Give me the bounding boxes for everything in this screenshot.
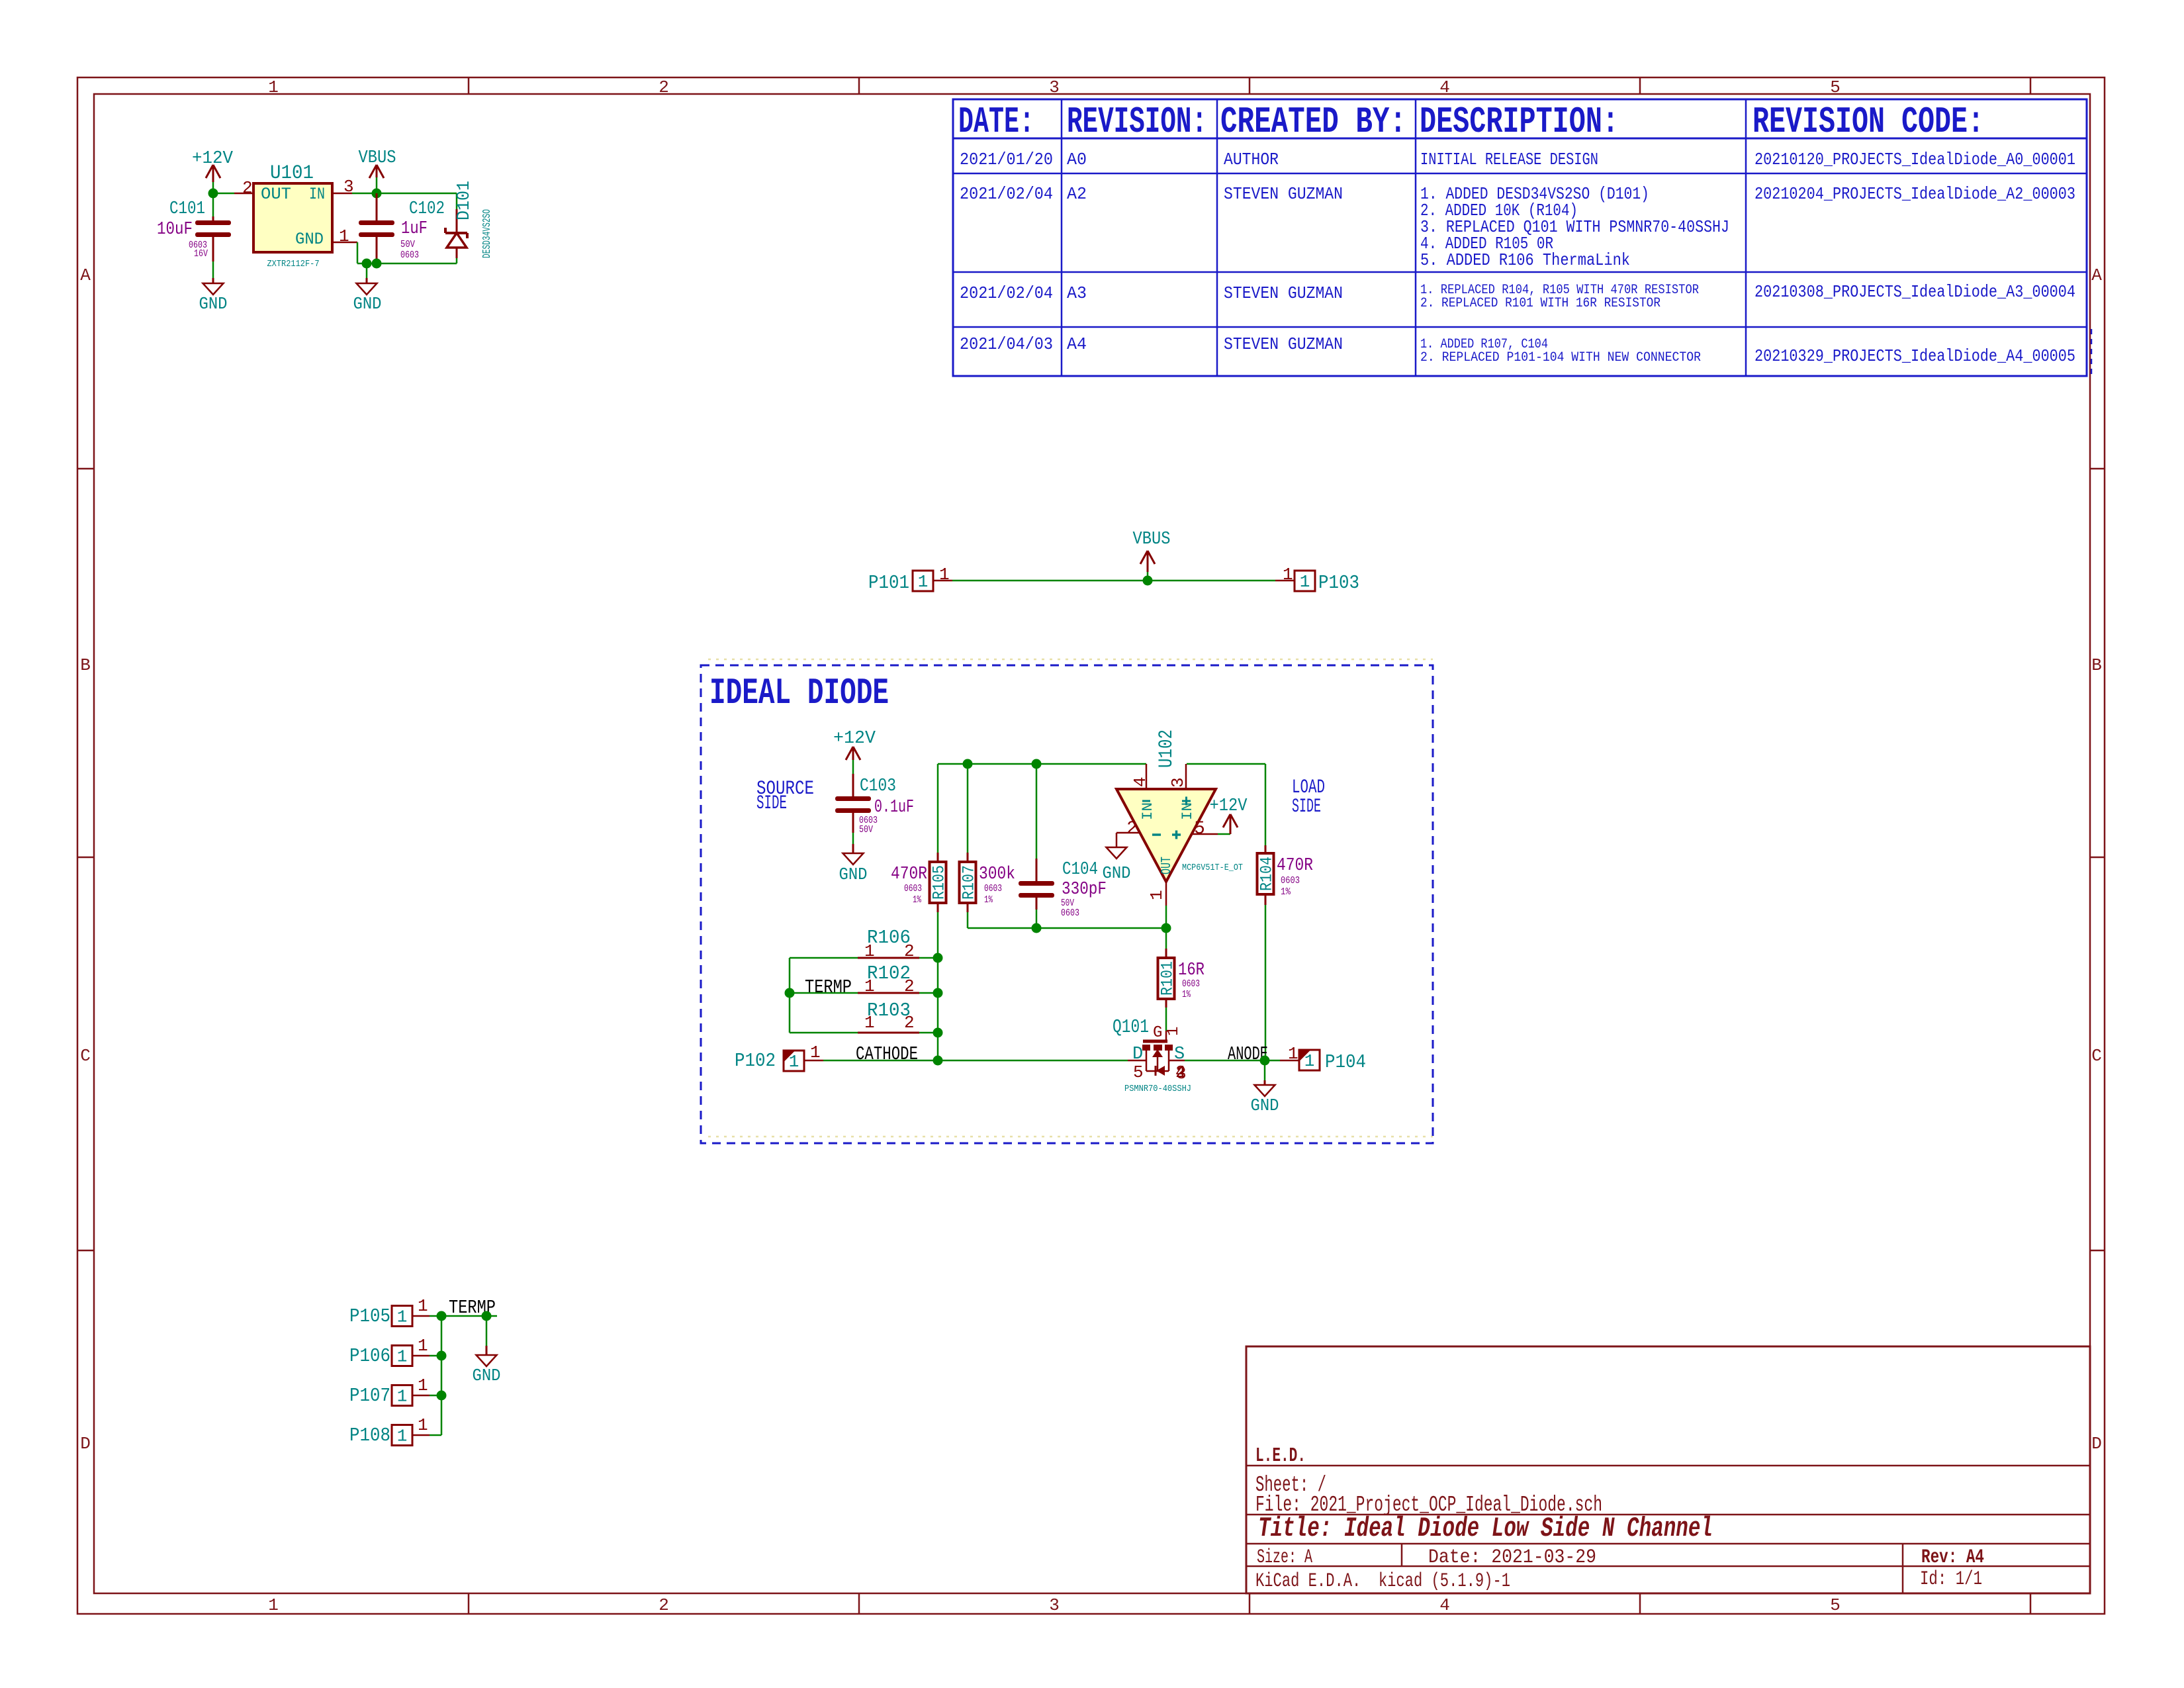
capacitor C102 [376, 193, 378, 220]
svg-text:1: 1 [789, 1052, 799, 1072]
svg-text:3: 3 [1176, 1064, 1187, 1084]
wire C101 to GND [212, 261, 214, 278]
wire anode to GND [1264, 1060, 1266, 1080]
svg-text:P106: P106 [349, 1345, 390, 1367]
svg-text:470R: 470R [891, 865, 927, 884]
svg-text:Date: 2021-03-29: Date: 2021-03-29 [1428, 1546, 1596, 1569]
junction R106 pin2 [933, 953, 943, 963]
svg-text:SIDE: SIDE [1292, 796, 1321, 818]
power symbol VBUS top-left [376, 165, 378, 177]
svg-text:3: 3 [1049, 77, 1060, 97]
wire ANODE [1185, 1060, 1280, 1062]
svg-text:C: C [2091, 1046, 2102, 1066]
ground symbol bottom-left [477, 1355, 497, 1366]
svg-text:1: 1 [418, 1376, 428, 1395]
junction R103 pin2 [933, 1028, 943, 1038]
capacitor C104 [1036, 764, 1038, 859]
wire R101 to Q101 gate [1165, 1008, 1167, 1031]
svg-text:A: A [80, 265, 91, 285]
junction at C102 bottom [372, 259, 382, 269]
wire top bus +12V [938, 763, 1146, 765]
svg-text:+12V: +12V [833, 729, 876, 749]
svg-text:470R: 470R [1277, 856, 1313, 876]
pin 1 OUT of U102 [1165, 882, 1167, 906]
svg-text:ZXTR2112F-7: ZXTR2112F-7 [267, 259, 320, 269]
svg-text:5: 5 [1133, 1062, 1144, 1082]
power symbol +12V at U102 pin5 [1230, 814, 1232, 834]
pale dashed accent lines [708, 659, 1433, 661]
power symbol +12V at C103 [852, 747, 854, 760]
svg-text:1: 1 [268, 77, 279, 97]
wire VBUS rail [952, 580, 1275, 582]
pin wire P104 [1280, 1060, 1299, 1062]
svg-text:C101: C101 [169, 199, 205, 219]
junction TERMP-GND [482, 1311, 492, 1321]
svg-text:2: 2 [659, 77, 669, 97]
pin wire P101 [933, 580, 952, 582]
svg-text:50V: 50V [400, 239, 415, 250]
svg-text:1: 1 [1300, 572, 1310, 592]
svg-text:A: A [2091, 265, 2102, 285]
zener diode D101 [456, 193, 458, 209]
svg-text:20210308_PROJECTS_IdealDiode_A: 20210308_PROJECTS_IdealDiode_A3_00004 [1754, 282, 2075, 302]
svg-text:P104: P104 [1325, 1051, 1366, 1073]
pin 5 of U102 [1191, 833, 1218, 835]
svg-text:2021/01/20: 2021/01/20 [960, 150, 1053, 169]
svg-text:DESD34VS2SO: DESD34VS2SO [481, 209, 494, 258]
svg-text:+12V: +12V [192, 149, 234, 169]
svg-text:Size: A: Size: A [1257, 1546, 1312, 1569]
title block outline [1246, 1346, 2090, 1593]
svg-text:U101: U101 [270, 162, 314, 185]
svg-text:L.E.D.: L.E.D. [1255, 1444, 1306, 1468]
junction C104 bottom [1032, 923, 1042, 933]
revision table dashed edge [2091, 329, 2093, 376]
svg-text:0603: 0603 [1281, 875, 1300, 886]
junction TERMP rail [785, 988, 795, 998]
power symbol VBUS mid [1147, 551, 1149, 572]
wire R104 to anode [1265, 905, 1267, 1060]
svg-text:2: 2 [904, 976, 915, 996]
svg-text:A4: A4 [1067, 334, 1087, 354]
ground symbol below C101 [203, 283, 224, 295]
wire R107 to bottom bus [967, 912, 969, 928]
pin 3 of U102 [1185, 764, 1187, 789]
svg-text:10uF: 10uF [157, 220, 193, 240]
wire U101 IN to VBUS node [352, 193, 377, 195]
power symbol +12V at C101 [212, 165, 214, 182]
svg-text:Q101: Q101 [1113, 1016, 1149, 1038]
pin 1 GND of U101 [332, 242, 357, 244]
capacitor C103 [835, 796, 871, 801]
wire U101 GND to ground net [357, 242, 359, 263]
svg-text:5: 5 [1830, 77, 1841, 97]
svg-text:GND: GND [1103, 863, 1131, 883]
svg-text:STEVEN GUZMAN: STEVEN GUZMAN [1224, 283, 1343, 303]
svg-text:Title: Ideal Diode Low Side N: Title: Ideal Diode Low Side N Channel [1258, 1513, 1713, 1544]
connector P104 [1299, 1050, 1320, 1070]
ground symbol below C102 [357, 283, 377, 295]
svg-text:1%: 1% [1281, 886, 1291, 898]
svg-text:1: 1 [397, 1347, 408, 1367]
svg-text:1uF: 1uF [401, 219, 428, 239]
wire pin2 to ground [1116, 833, 1118, 847]
wire to GND bottom [486, 1316, 488, 1346]
svg-text:2021/04/03: 2021/04/03 [960, 334, 1053, 354]
svg-text:C: C [80, 1046, 91, 1066]
pin 4 of U102 [1146, 764, 1148, 789]
ground symbol below C103 [843, 853, 864, 865]
wire C103 to GND [852, 833, 854, 844]
resistor R107 [967, 764, 969, 853]
svg-text:0603: 0603 [904, 883, 922, 894]
svg-text:0603: 0603 [1182, 978, 1200, 990]
pin wire P107 [412, 1395, 430, 1397]
svg-text:P102: P102 [735, 1050, 776, 1072]
minus symbol near pin 2 [1152, 833, 1161, 836]
svg-text:CATHODE: CATHODE [856, 1043, 918, 1065]
svg-text:SIDE: SIDE [756, 792, 787, 815]
wire ground stub down [366, 263, 368, 278]
svg-text:REVISION CODE:: REVISION CODE: [1752, 101, 1984, 143]
svg-text:R105: R105 [930, 865, 949, 900]
svg-text:P105: P105 [349, 1305, 390, 1327]
svg-text:REVISION:: REVISION: [1067, 101, 1207, 143]
pin wire P103 [1275, 580, 1295, 582]
svg-text:R107: R107 [960, 865, 979, 900]
junction C104 top [1032, 759, 1042, 769]
svg-text:1: 1 [1147, 890, 1167, 900]
svg-text:D: D [80, 1434, 91, 1454]
svg-text:20210120_PROJECTS_IdealDiode_A: 20210120_PROJECTS_IdealDiode_A0_00001 [1754, 150, 2075, 169]
svg-text:2021/02/04: 2021/02/04 [960, 184, 1053, 204]
svg-text:STEVEN GUZMAN: STEVEN GUZMAN [1224, 184, 1343, 204]
junction VBUS rail [1143, 576, 1153, 586]
connector P103 [1295, 571, 1315, 591]
junction op-amp OUT [1161, 923, 1171, 933]
junction at U101 OUT [208, 189, 218, 199]
junction at VBUS node [372, 189, 382, 199]
jumper R106 [790, 957, 858, 959]
svg-text:KiCad E.D.A. kicad (5.1.9)-1: KiCad E.D.A. kicad (5.1.9)-1 [1255, 1570, 1510, 1593]
svg-text:20210329_PROJECTS_IdealDiode_A: 20210329_PROJECTS_IdealDiode_A4_00005 [1754, 346, 2075, 366]
svg-text:5: 5 [1830, 1595, 1841, 1615]
svg-text:G: G [1153, 1024, 1162, 1042]
svg-text:1: 1 [418, 1336, 428, 1356]
capacitor C101 [212, 193, 214, 216]
svg-text:1: 1 [418, 1296, 428, 1316]
junction at GND stub [362, 259, 372, 269]
svg-text:2: 2 [1126, 819, 1138, 839]
jumper R102 [790, 992, 858, 994]
svg-text:IN: IN [309, 185, 325, 204]
svg-text:GND: GND [353, 294, 382, 314]
junction P105 rail [437, 1311, 447, 1321]
svg-text:20210204_PROJECTS_IdealDiode_A: 20210204_PROJECTS_IdealDiode_A2_00003 [1754, 184, 2075, 204]
svg-text:1: 1 [418, 1415, 428, 1435]
svg-text:+12V: +12V [1210, 796, 1248, 816]
svg-text:4: 4 [1439, 77, 1450, 97]
svg-text:R101: R101 [1158, 961, 1177, 996]
svg-text:1: 1 [1288, 1044, 1298, 1064]
jumper R103 [790, 1032, 858, 1034]
junction cathode rail [933, 1056, 943, 1066]
svg-text:AUTHOR: AUTHOR [1224, 150, 1279, 169]
svg-text:B: B [2091, 655, 2102, 675]
svg-text:1: 1 [810, 1043, 821, 1062]
svg-text:IN: IN [1140, 802, 1156, 820]
svg-text:CREATED BY:: CREATED BY: [1220, 101, 1406, 143]
svg-text:R104: R104 [1257, 857, 1277, 891]
svg-text:1%: 1% [984, 894, 993, 906]
svg-text:Id: 1/1: Id: 1/1 [1920, 1568, 1982, 1591]
svg-text:TERMP: TERMP [805, 976, 852, 998]
svg-text:GND: GND [199, 294, 228, 314]
svg-text:U102: U102 [1156, 729, 1178, 768]
svg-text:330pF: 330pF [1062, 880, 1107, 900]
pin wire P108 [412, 1434, 430, 1436]
svg-text:MCP6V51T-E_OT: MCP6V51T-E_OT [1182, 863, 1243, 873]
svg-text:S: S [1174, 1045, 1185, 1064]
op-amp U102 body [1116, 789, 1216, 882]
wire R105 bottom rail [937, 912, 939, 1060]
svg-text:A0: A0 [1067, 150, 1087, 169]
svg-text:DESCRIPTION:: DESCRIPTION: [1420, 101, 1619, 143]
wire common rail P105-P108 [441, 1316, 443, 1435]
svg-text:P108: P108 [349, 1425, 390, 1446]
svg-text:GND: GND [839, 865, 868, 884]
frame column ticks top [468, 77, 470, 94]
svg-text:P101: P101 [868, 572, 909, 594]
svg-text:OUT: OUT [261, 185, 291, 204]
svg-text:50V: 50V [859, 824, 873, 835]
pin wire P105 [412, 1315, 430, 1317]
ground symbol below anode [1255, 1085, 1275, 1096]
svg-text:1: 1 [918, 572, 929, 592]
svg-text:1: 1 [1283, 565, 1293, 585]
svg-text:1: 1 [339, 226, 349, 246]
svg-text:C104: C104 [1062, 860, 1098, 880]
svg-text:VBUS: VBUS [1133, 530, 1171, 549]
svg-text:A2: A2 [1067, 184, 1087, 204]
svg-text:1: 1 [397, 1427, 408, 1446]
svg-text:VBUS: VBUS [359, 148, 396, 168]
wire pin5 to +12V [1218, 833, 1230, 835]
svg-text:2: 2 [904, 941, 915, 961]
svg-text:IN: IN [1179, 802, 1196, 820]
svg-text:GND: GND [295, 230, 324, 249]
svg-text:0603: 0603 [984, 883, 1002, 894]
svg-text:0603: 0603 [1061, 908, 1079, 919]
svg-text:IDEAL DIODE: IDEAL DIODE [709, 672, 889, 714]
svg-text:DATE:: DATE: [958, 101, 1034, 143]
svg-text:C102: C102 [409, 199, 445, 219]
svg-text:5. ADDED R106 ThermaLink: 5. ADDED R106 ThermaLink [1420, 250, 1630, 270]
svg-text:1: 1 [864, 1013, 875, 1033]
svg-text:D: D [2091, 1434, 2102, 1454]
svg-text:OUT: OUT [1160, 857, 1175, 874]
svg-text:1%: 1% [1182, 989, 1191, 1000]
svg-text:300k: 300k [979, 865, 1015, 884]
wire TERMP stub [441, 1315, 497, 1317]
svg-text:D101: D101 [455, 181, 475, 220]
revision table grid [953, 99, 2087, 376]
svg-text:C103: C103 [860, 776, 896, 796]
wire VBUS node to D101 top [377, 193, 457, 195]
svg-text:1%: 1% [913, 894, 922, 906]
frame row ticks right [2090, 468, 2105, 470]
svg-text:1: 1 [1304, 1051, 1315, 1071]
wire OUT node to U101 [213, 193, 234, 195]
resistor R105 [937, 764, 939, 853]
svg-text:16R: 16R [1178, 961, 1205, 980]
junction R102 pin2 [933, 988, 943, 998]
svg-text:4: 4 [1130, 776, 1150, 787]
pin 3 of U101 [332, 193, 352, 195]
svg-text:A3: A3 [1067, 283, 1087, 303]
junction R107 top [963, 759, 973, 769]
pin wire P106 [412, 1355, 430, 1357]
frame column ticks bottom [468, 1593, 470, 1614]
svg-text:2. REPLACED R101 WITH 16R RESI: 2. REPLACED R101 WITH 16R RESISTOR [1420, 296, 1661, 311]
svg-text:P107: P107 [349, 1385, 390, 1407]
svg-text:1: 1 [268, 1595, 279, 1615]
wire left rail TERMP [789, 958, 791, 1033]
svg-text:1: 1 [397, 1307, 408, 1327]
pin 2 of U101 [234, 193, 253, 195]
svg-text:2: 2 [242, 178, 253, 198]
svg-text:GND: GND [1251, 1096, 1279, 1115]
junction P107 rail [437, 1391, 447, 1401]
svg-text:5: 5 [1194, 819, 1205, 839]
pin 2 of U102 [1116, 832, 1140, 834]
junction P106 rail [437, 1351, 447, 1361]
svg-text:1: 1 [397, 1387, 408, 1407]
svg-text:4: 4 [1439, 1595, 1450, 1615]
plus symbol near pin 5 [1172, 833, 1181, 836]
svg-text:2. REPLACED P101-104 WITH NEW: 2. REPLACED P101-104 WITH NEW CONNECTOR [1420, 350, 1701, 365]
wire CATHODE [823, 1060, 1128, 1062]
svg-text:GND: GND [473, 1366, 501, 1385]
svg-text:P103: P103 [1318, 572, 1359, 594]
wire bottom bus [968, 927, 1166, 929]
svg-text:1: 1 [1165, 1027, 1183, 1036]
svg-text:2021/02/04: 2021/02/04 [960, 283, 1053, 303]
svg-text:3: 3 [1168, 777, 1188, 788]
resistor R104 [1265, 764, 1267, 845]
junction anode [1260, 1056, 1270, 1066]
svg-text:2: 2 [659, 1595, 669, 1615]
svg-text:3: 3 [1049, 1595, 1060, 1615]
svg-text:2: 2 [904, 1013, 915, 1033]
ideal diode dashed outline [701, 665, 1433, 1143]
frame row ticks left [77, 468, 94, 470]
resistor R101 [1165, 928, 1167, 949]
pin wire P102 [804, 1060, 823, 1062]
svg-text:1: 1 [939, 565, 950, 585]
svg-text:B: B [80, 655, 91, 675]
svg-text:Rev: A4: Rev: A4 [1921, 1546, 1984, 1569]
svg-text:STEVEN GUZMAN: STEVEN GUZMAN [1224, 334, 1343, 354]
svg-text:0.1uF: 0.1uF [874, 798, 914, 818]
regulator U101 body [253, 183, 332, 252]
svg-text:D: D [1132, 1045, 1143, 1064]
svg-text:1: 1 [864, 941, 875, 961]
svg-text:1: 1 [864, 976, 875, 996]
svg-text:16V: 16V [194, 248, 208, 259]
svg-text:INITIAL RELEASE DESIGN: INITIAL RELEASE DESIGN [1420, 150, 1598, 169]
svg-text:PSMNR70-40SSHJ: PSMNR70-40SSHJ [1124, 1084, 1191, 1094]
svg-text:0603: 0603 [400, 250, 419, 261]
ground symbol at U102 pin2 [1107, 847, 1127, 859]
